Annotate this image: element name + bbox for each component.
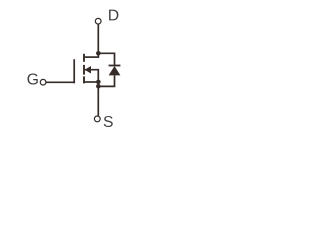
arrow body (points to channel) xyxy=(85,66,91,74)
wire body connection xyxy=(85,69,98,71)
wire drain vertical xyxy=(97,24,99,57)
wire source horizontal xyxy=(84,81,99,83)
diode anode triangle xyxy=(109,66,121,75)
channel dash source xyxy=(83,76,85,83)
wire diode top branch xyxy=(98,53,114,65)
terminal circle D xyxy=(95,18,101,24)
diode cathode bar xyxy=(109,65,121,67)
junction dot drain/diode xyxy=(96,51,101,56)
label S xyxy=(104,116,113,127)
label G xyxy=(27,73,37,84)
wire drain horizontal xyxy=(84,56,99,58)
junction dot source wire xyxy=(96,80,101,85)
terminal circle S xyxy=(94,116,100,122)
junction dot diode return xyxy=(96,84,101,89)
channel dash drain xyxy=(83,54,85,62)
terminal circle G xyxy=(40,79,46,85)
label D xyxy=(109,10,118,21)
wire diode bottom branch xyxy=(98,75,114,86)
wire source-to-S vertical xyxy=(97,70,99,116)
wire gate horizontal xyxy=(46,81,75,83)
gate electrode xyxy=(73,59,75,83)
channel dash middle xyxy=(83,65,85,75)
